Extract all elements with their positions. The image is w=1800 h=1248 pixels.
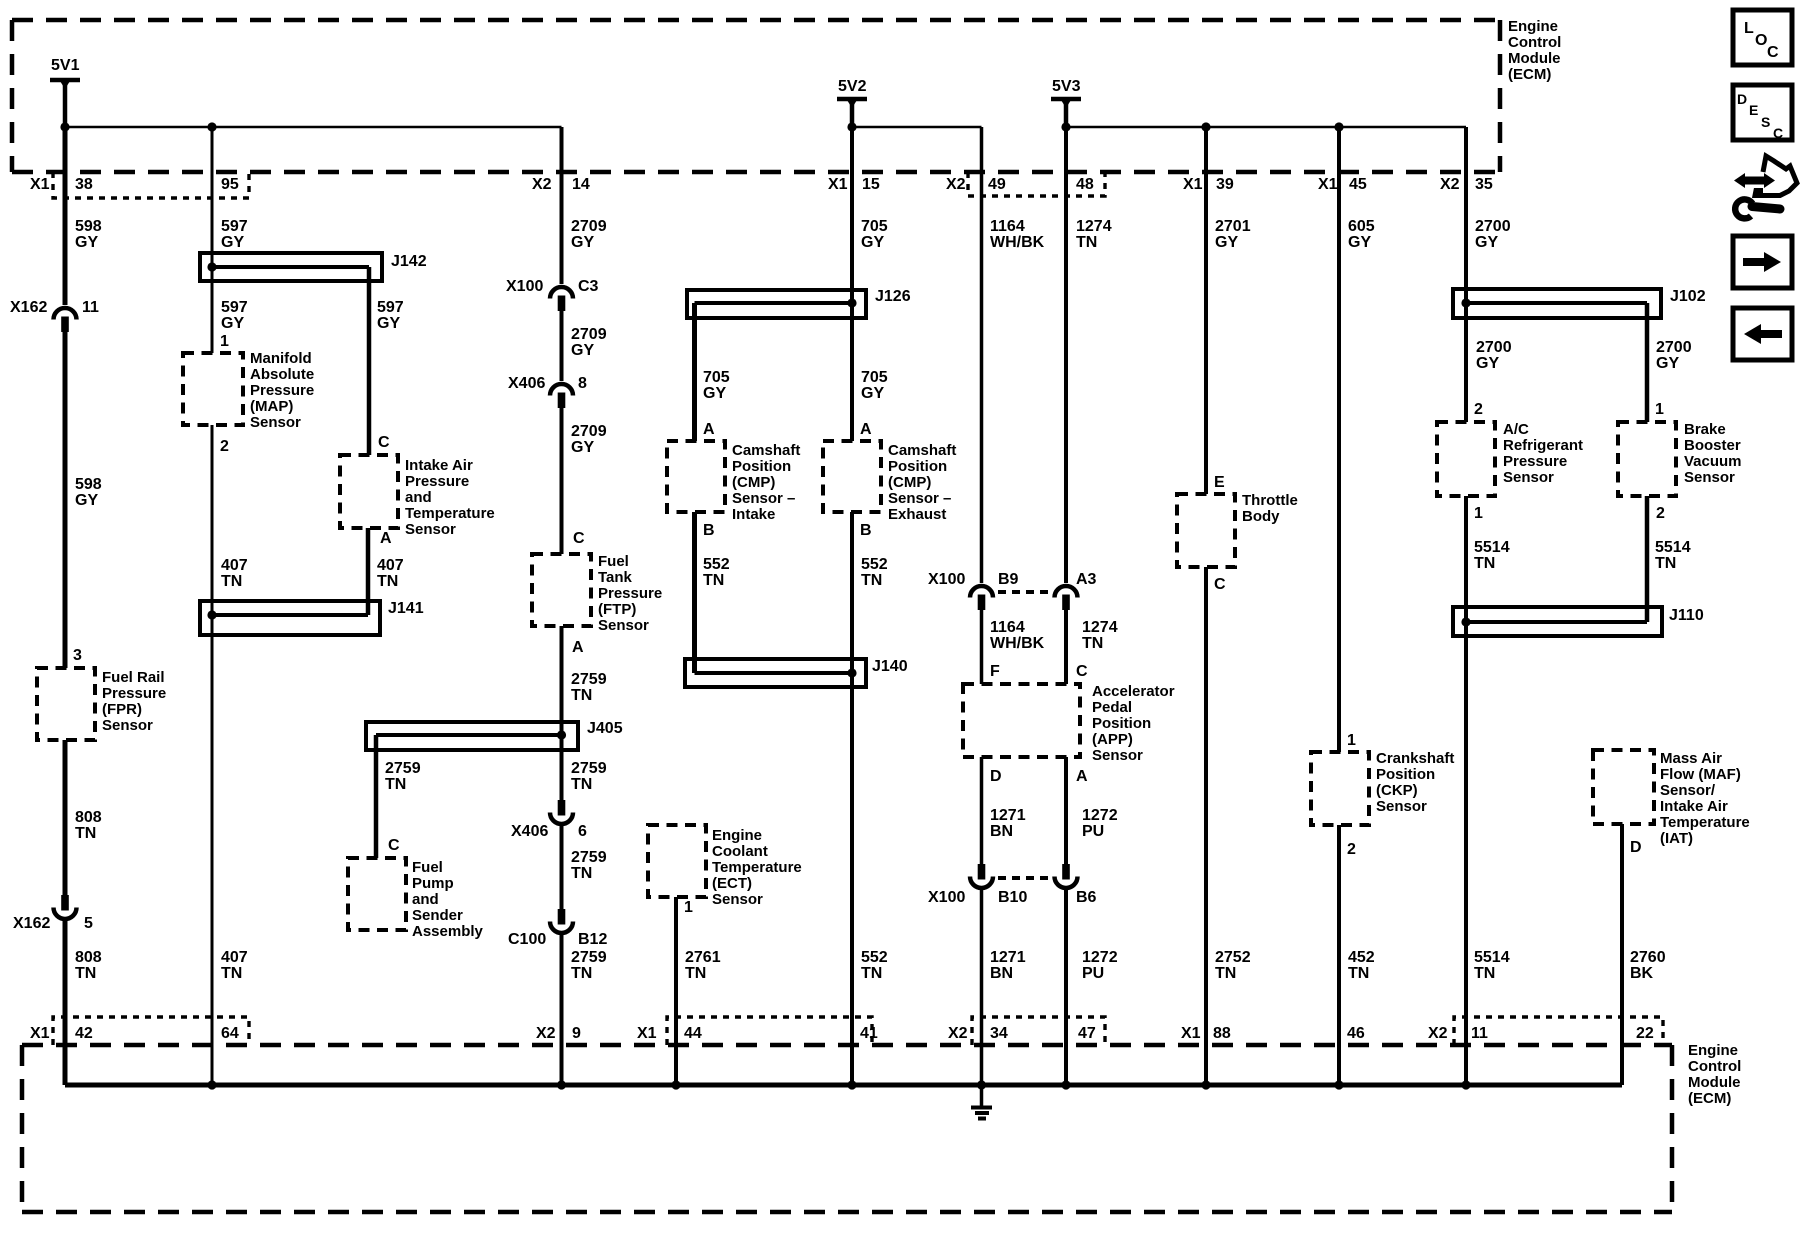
svg-text:(FPR): (FPR) bbox=[102, 701, 142, 718]
svg-text:5514: 5514 bbox=[1655, 539, 1691, 556]
svg-text:605: 605 bbox=[1348, 218, 1375, 235]
svg-text:A: A bbox=[703, 421, 715, 438]
svg-text:GY: GY bbox=[377, 315, 400, 332]
wire 1272 PU upper bbox=[1066, 757, 1118, 864]
svg-text:J126: J126 bbox=[875, 288, 911, 305]
svg-text:Sensor: Sensor bbox=[712, 891, 763, 908]
svg-text:2700: 2700 bbox=[1476, 339, 1512, 356]
svg-text:597: 597 bbox=[221, 218, 248, 235]
svg-text:(APP): (APP) bbox=[1092, 731, 1133, 748]
wire 552 TN right bbox=[852, 512, 888, 1085]
svg-text:(MAP): (MAP) bbox=[250, 398, 293, 415]
svg-text:Pressure: Pressure bbox=[250, 382, 314, 399]
connector X100 pin B10 bbox=[928, 864, 1027, 906]
ECM bottom module boundary (dashed) bbox=[22, 1045, 1672, 1212]
wire 2709 GY segment 2 bbox=[562, 311, 607, 381]
svg-text:1: 1 bbox=[1347, 732, 1356, 749]
svg-text:407: 407 bbox=[221, 949, 248, 966]
svg-text:8: 8 bbox=[578, 375, 587, 392]
wire 452 TN bbox=[1339, 825, 1375, 1085]
svg-text:22: 22 bbox=[1636, 1025, 1654, 1042]
pin C bbox=[388, 837, 400, 854]
wire 5V3 stem bbox=[1064, 99, 1069, 127]
svg-text:A: A bbox=[1076, 768, 1088, 785]
svg-text:GY: GY bbox=[75, 234, 98, 251]
connector mate dotted link B10-B6 bbox=[998, 876, 1050, 880]
icon DESC box bbox=[1733, 85, 1792, 141]
wire 5514 TN left bbox=[1466, 496, 1510, 1085]
wire 808 TN lower bbox=[65, 919, 102, 1085]
ECM X1 connector box pins 38 95 bbox=[53, 172, 249, 198]
svg-text:9: 9 bbox=[572, 1025, 581, 1042]
pin X1 15 bbox=[828, 176, 880, 193]
svg-text:Temperature: Temperature bbox=[405, 505, 495, 522]
svg-text:Engine: Engine bbox=[712, 827, 762, 844]
svg-text:(IAT): (IAT) bbox=[1660, 830, 1693, 847]
icon double arrow with curved arrow and wrench bbox=[1734, 156, 1797, 218]
svg-text:552: 552 bbox=[861, 949, 888, 966]
pin X1 45 bbox=[1318, 176, 1367, 193]
svg-text:A: A bbox=[860, 421, 872, 438]
svg-text:X2: X2 bbox=[1428, 1025, 1448, 1042]
svg-text:B12: B12 bbox=[578, 931, 607, 948]
svg-text:Body: Body bbox=[1242, 508, 1280, 525]
sensor Mass Air Flow (MAF) / Intake Air Temperature (IAT) bbox=[1593, 750, 1750, 847]
wire 1271 BN upper bbox=[982, 757, 1026, 864]
svg-text:Position: Position bbox=[732, 458, 791, 475]
svg-text:Pump: Pump bbox=[412, 875, 454, 892]
svg-text:5V2: 5V2 bbox=[838, 78, 867, 95]
svg-text:Sensor –: Sensor – bbox=[888, 490, 951, 507]
svg-text:49: 49 bbox=[988, 176, 1006, 193]
svg-text:5514: 5514 bbox=[1474, 539, 1510, 556]
svg-text:J140: J140 bbox=[872, 658, 908, 675]
svg-text:GY: GY bbox=[75, 492, 98, 509]
svg-text:X406: X406 bbox=[511, 823, 548, 840]
svg-text:45: 45 bbox=[1349, 176, 1367, 193]
svg-text:1271: 1271 bbox=[990, 949, 1026, 966]
label Engine Control Module (ECM) bottom bbox=[1688, 1042, 1741, 1107]
wire 1164 WH/BK upper bbox=[982, 127, 1045, 583]
svg-text:TN: TN bbox=[571, 776, 592, 793]
svg-text:GY: GY bbox=[221, 315, 244, 332]
pin 47 bbox=[1078, 1025, 1096, 1042]
splice pack J110 bbox=[1453, 607, 1704, 636]
wire 2701 GY bbox=[1206, 127, 1251, 494]
svg-text:598: 598 bbox=[75, 476, 102, 493]
pin 2 bbox=[1474, 401, 1483, 418]
svg-text:11: 11 bbox=[82, 299, 99, 316]
wire 1272 PU lower bbox=[1066, 888, 1118, 1085]
svg-text:15: 15 bbox=[862, 176, 880, 193]
svg-text:Sensor/: Sensor/ bbox=[1660, 782, 1716, 799]
pin A bbox=[860, 421, 872, 438]
svg-text:TN: TN bbox=[1215, 965, 1236, 982]
svg-text:TN: TN bbox=[861, 572, 882, 589]
pin X1 44 bbox=[637, 1025, 702, 1042]
pin X1 42 bbox=[30, 1025, 93, 1042]
svg-text:GY: GY bbox=[1475, 234, 1498, 251]
svg-text:X1: X1 bbox=[30, 1025, 50, 1042]
svg-text:TN: TN bbox=[377, 573, 398, 590]
svg-text:Tank: Tank bbox=[598, 569, 633, 586]
svg-text:2: 2 bbox=[220, 438, 229, 455]
ECM X2 connector box pins 11 22 bbox=[1454, 1017, 1663, 1045]
svg-text:Coolant: Coolant bbox=[712, 843, 768, 860]
sensor Intake Air Pressure and Temperature bbox=[340, 455, 495, 538]
svg-text:X2: X2 bbox=[1440, 176, 1460, 193]
wire 2759 TN branch bbox=[376, 735, 421, 858]
svg-text:597: 597 bbox=[377, 299, 404, 316]
pin D bbox=[1630, 839, 1642, 856]
pin X1 88 bbox=[1181, 1025, 1231, 1042]
svg-text:X100: X100 bbox=[928, 889, 965, 906]
svg-text:Module: Module bbox=[1688, 1074, 1741, 1091]
svg-text:2700: 2700 bbox=[1656, 339, 1692, 356]
svg-text:1: 1 bbox=[220, 333, 229, 350]
svg-text:1: 1 bbox=[1655, 401, 1664, 418]
svg-text:Pressure: Pressure bbox=[1503, 453, 1567, 470]
svg-text:Sensor: Sensor bbox=[102, 717, 153, 734]
svg-text:6: 6 bbox=[578, 823, 587, 840]
svg-text:B6: B6 bbox=[1076, 889, 1097, 906]
pin 2 bbox=[1347, 841, 1356, 858]
svg-text:(ECM): (ECM) bbox=[1688, 1090, 1731, 1107]
pin 1 bbox=[1347, 732, 1356, 749]
svg-text:2709: 2709 bbox=[571, 326, 607, 343]
svg-text:J110: J110 bbox=[1669, 607, 1704, 624]
pin X2 35 bbox=[1440, 176, 1493, 193]
svg-text:Fuel: Fuel bbox=[598, 553, 629, 570]
svg-text:Sender: Sender bbox=[412, 907, 463, 924]
svg-text:GY: GY bbox=[221, 234, 244, 251]
sensor Manifold Absolute Pressure (MAP) bbox=[183, 350, 314, 431]
wire 2759 TN segment 3 bbox=[562, 933, 607, 1085]
wire 605 GY bbox=[1339, 127, 1375, 752]
svg-text:Position: Position bbox=[1376, 766, 1435, 783]
svg-text:48: 48 bbox=[1076, 176, 1094, 193]
sensor Crankshaft Position (CKP) bbox=[1311, 750, 1454, 825]
svg-text:X2: X2 bbox=[532, 176, 552, 193]
wire 5V2 stem bbox=[850, 99, 855, 127]
svg-text:X2: X2 bbox=[948, 1025, 968, 1042]
icon left arrow box bbox=[1733, 308, 1792, 360]
wire 5V1 bus bbox=[60, 122, 561, 131]
svg-text:42: 42 bbox=[75, 1025, 93, 1042]
wire 597 GY branch bbox=[369, 267, 404, 455]
pin 1 bbox=[220, 333, 229, 350]
svg-text:Sensor: Sensor bbox=[1684, 469, 1735, 486]
wire 2760 BK bbox=[1622, 824, 1666, 1085]
ECM X2 connector box pins 34 47 bbox=[972, 1017, 1105, 1045]
wire 598 GY upper bbox=[65, 127, 102, 305]
wire 1164 WH/BK lower bbox=[982, 610, 1045, 684]
component Fuel Pump and Sender Assembly bbox=[348, 858, 484, 940]
svg-text:TN: TN bbox=[221, 965, 242, 982]
svg-text:Pressure: Pressure bbox=[598, 585, 662, 602]
svg-text:Intake Air: Intake Air bbox=[1660, 798, 1728, 815]
svg-text:Control: Control bbox=[1688, 1058, 1741, 1075]
svg-text:C: C bbox=[388, 837, 400, 854]
svg-text:Flow (MAF): Flow (MAF) bbox=[1660, 766, 1741, 783]
wire 407 TN left bbox=[212, 425, 248, 1085]
svg-text:X1: X1 bbox=[30, 176, 50, 193]
svg-text:Control: Control bbox=[1508, 34, 1561, 51]
svg-text:2: 2 bbox=[1656, 505, 1665, 522]
svg-text:BN: BN bbox=[990, 965, 1013, 982]
wire 5V1 stem bbox=[63, 80, 68, 127]
svg-text:X100: X100 bbox=[506, 278, 543, 295]
svg-text:95: 95 bbox=[221, 176, 239, 193]
component Throttle Body bbox=[1177, 492, 1298, 567]
svg-text:Pedal: Pedal bbox=[1092, 699, 1132, 716]
svg-text:WH/BK: WH/BK bbox=[990, 234, 1045, 251]
svg-text:1271: 1271 bbox=[990, 807, 1026, 824]
connector C100 pin B12 bbox=[508, 909, 607, 948]
svg-text:E: E bbox=[1214, 474, 1225, 491]
pin 3 bbox=[73, 647, 82, 664]
svg-text:GY: GY bbox=[1656, 355, 1679, 372]
svg-text:TN: TN bbox=[571, 865, 592, 882]
svg-text:2759: 2759 bbox=[571, 760, 607, 777]
svg-text:TN: TN bbox=[685, 965, 706, 982]
sensor Camshaft Position (CMP) Intake bbox=[667, 441, 800, 523]
splice pack J405 bbox=[366, 720, 623, 750]
wire 1274 TN lower bbox=[1066, 610, 1118, 684]
svg-text:Sensor: Sensor bbox=[1376, 798, 1427, 815]
svg-text:X100: X100 bbox=[928, 571, 965, 588]
connector pin B6 bbox=[1055, 864, 1097, 906]
svg-text:TN: TN bbox=[571, 965, 592, 982]
svg-text:PU: PU bbox=[1082, 823, 1104, 840]
svg-text:GY: GY bbox=[571, 439, 594, 456]
pin C bbox=[378, 434, 390, 451]
ECM X1 connector box pins 42 64 bbox=[53, 1017, 249, 1045]
sensor Accelerator Pedal Position (APP) bbox=[963, 683, 1175, 764]
svg-text:Absolute: Absolute bbox=[250, 366, 314, 383]
wire 1274 TN upper bbox=[1066, 127, 1112, 583]
connector X406 pin 8 bbox=[508, 375, 587, 408]
svg-text:B10: B10 bbox=[998, 889, 1027, 906]
svg-text:2760: 2760 bbox=[1630, 949, 1666, 966]
svg-text:(CMP): (CMP) bbox=[732, 474, 775, 491]
pin X2 34 bbox=[948, 1025, 1008, 1042]
svg-text:C: C bbox=[1767, 44, 1779, 61]
icon LOC box bbox=[1733, 10, 1792, 65]
pin A bbox=[572, 639, 584, 656]
svg-text:2709: 2709 bbox=[571, 218, 607, 235]
svg-text:Booster: Booster bbox=[1684, 437, 1741, 454]
svg-text:Throttle: Throttle bbox=[1242, 492, 1298, 509]
svg-text:J141: J141 bbox=[388, 600, 424, 617]
pin C bbox=[1214, 576, 1226, 593]
svg-text:BN: BN bbox=[990, 823, 1013, 840]
pin C bbox=[573, 530, 585, 547]
svg-text:A: A bbox=[572, 639, 584, 656]
wire 1271 BN lower bbox=[982, 888, 1026, 1085]
svg-text:11: 11 bbox=[1471, 1025, 1488, 1042]
svg-text:2759: 2759 bbox=[571, 849, 607, 866]
svg-text:705: 705 bbox=[861, 218, 888, 235]
svg-text:TN: TN bbox=[1474, 555, 1495, 572]
svg-text:Module: Module bbox=[1508, 50, 1561, 67]
svg-text:TN: TN bbox=[1655, 555, 1676, 572]
svg-text:(ECT): (ECT) bbox=[712, 875, 752, 892]
svg-text:2759: 2759 bbox=[571, 949, 607, 966]
svg-text:Engine: Engine bbox=[1688, 1042, 1738, 1059]
pin X1 39 bbox=[1183, 176, 1234, 193]
splice pack J141 bbox=[200, 600, 424, 635]
pin X2 9 bbox=[536, 1025, 581, 1042]
wire 598 GY lower bbox=[65, 332, 102, 668]
svg-text:Sensor: Sensor bbox=[1503, 469, 1554, 486]
svg-text:1272: 1272 bbox=[1082, 949, 1118, 966]
svg-text:Intake: Intake bbox=[732, 506, 775, 523]
svg-text:X162: X162 bbox=[13, 915, 50, 932]
svg-text:41: 41 bbox=[860, 1025, 878, 1042]
svg-text:Camshaft: Camshaft bbox=[888, 442, 956, 459]
svg-text:C3: C3 bbox=[578, 278, 599, 295]
svg-text:A3: A3 bbox=[1076, 571, 1097, 588]
svg-text:GY: GY bbox=[861, 385, 884, 402]
svg-text:GY: GY bbox=[1476, 355, 1499, 372]
ground bbox=[971, 1085, 992, 1119]
svg-text:GY: GY bbox=[571, 234, 594, 251]
svg-text:598: 598 bbox=[75, 218, 102, 235]
svg-text:Temperature: Temperature bbox=[712, 859, 802, 876]
pin 1 bbox=[1474, 505, 1483, 522]
svg-text:(CKP): (CKP) bbox=[1376, 782, 1418, 799]
svg-text:705: 705 bbox=[861, 369, 888, 386]
svg-text:C: C bbox=[573, 530, 585, 547]
wire 2700 GY main bbox=[1466, 127, 1512, 422]
svg-text:TN: TN bbox=[75, 965, 96, 982]
svg-text:B: B bbox=[703, 522, 715, 539]
pin E bbox=[1214, 474, 1225, 491]
wire 5V3 bus bbox=[1061, 122, 1466, 131]
svg-text:D: D bbox=[990, 768, 1002, 785]
svg-text:39: 39 bbox=[1216, 176, 1234, 193]
pin X2 49 bbox=[946, 176, 1006, 193]
svg-text:5514: 5514 bbox=[1474, 949, 1510, 966]
svg-text:2752: 2752 bbox=[1215, 949, 1251, 966]
pin F bbox=[990, 663, 1000, 680]
svg-text:2700: 2700 bbox=[1475, 218, 1511, 235]
svg-text:X1: X1 bbox=[1183, 176, 1203, 193]
svg-text:J102: J102 bbox=[1670, 288, 1706, 305]
ECM X1 connector box pins 44 41 bbox=[667, 1017, 872, 1045]
svg-text:88: 88 bbox=[1213, 1025, 1231, 1042]
pin 95 bbox=[221, 176, 239, 193]
svg-text:X2: X2 bbox=[536, 1025, 556, 1042]
ECM top module boundary (dashed) bbox=[12, 20, 1500, 172]
svg-text:X406: X406 bbox=[508, 375, 545, 392]
svg-text:5V1: 5V1 bbox=[51, 57, 80, 74]
svg-text:WH/BK: WH/BK bbox=[990, 635, 1045, 652]
svg-text:1164: 1164 bbox=[990, 218, 1025, 235]
svg-text:1272: 1272 bbox=[1082, 807, 1118, 824]
svg-text:X2: X2 bbox=[946, 176, 966, 193]
svg-text:Refrigerant: Refrigerant bbox=[1503, 437, 1583, 454]
label Engine Control Module (ECM) top bbox=[1508, 18, 1561, 83]
svg-text:Intake Air: Intake Air bbox=[405, 457, 473, 474]
svg-text:1274: 1274 bbox=[1082, 619, 1118, 636]
pin 48 bbox=[1076, 176, 1094, 193]
svg-text:J142: J142 bbox=[391, 253, 427, 270]
svg-text:TN: TN bbox=[1082, 635, 1103, 652]
svg-text:2709: 2709 bbox=[571, 423, 607, 440]
svg-text:1274: 1274 bbox=[1076, 218, 1112, 235]
connector mate dotted link B9-A3 bbox=[998, 590, 1050, 594]
svg-text:Sensor: Sensor bbox=[598, 617, 649, 634]
svg-text:Accelerator: Accelerator bbox=[1092, 683, 1175, 700]
svg-text:TN: TN bbox=[1474, 965, 1495, 982]
svg-text:Position: Position bbox=[1092, 715, 1151, 732]
svg-text:Exhaust: Exhaust bbox=[888, 506, 946, 523]
icon right arrow box bbox=[1733, 236, 1792, 288]
svg-text:Brake: Brake bbox=[1684, 421, 1726, 438]
svg-text:47: 47 bbox=[1078, 1025, 1096, 1042]
svg-text:5: 5 bbox=[84, 915, 93, 932]
svg-text:2701: 2701 bbox=[1215, 218, 1251, 235]
wire 597 GY upper bbox=[212, 127, 248, 353]
pin 2 bbox=[1656, 505, 1665, 522]
svg-text:F: F bbox=[990, 663, 1000, 680]
svg-text:Pressure: Pressure bbox=[102, 685, 166, 702]
svg-text:C: C bbox=[1773, 125, 1783, 141]
wire 705 GY branch bbox=[695, 303, 730, 441]
sensor Camshaft Position (CMP) Exhaust bbox=[823, 441, 956, 523]
wire 705 GY main bbox=[852, 127, 888, 441]
svg-text:Sensor –: Sensor – bbox=[732, 490, 795, 507]
svg-text:808: 808 bbox=[75, 949, 102, 966]
svg-text:TN: TN bbox=[1348, 965, 1369, 982]
svg-text:and: and bbox=[412, 891, 439, 908]
svg-text:Mass Air: Mass Air bbox=[1660, 750, 1722, 767]
svg-text:O: O bbox=[1755, 32, 1767, 49]
svg-text:2759: 2759 bbox=[571, 671, 607, 688]
svg-text:C: C bbox=[1076, 663, 1088, 680]
wire 2709 GY segment 3 bbox=[562, 408, 607, 554]
pin 1 bbox=[1655, 401, 1664, 418]
svg-text:(FTP): (FTP) bbox=[598, 601, 636, 618]
wire 808 TN upper bbox=[65, 740, 102, 895]
wire 5V2 bus bbox=[847, 122, 981, 131]
svg-text:A: A bbox=[380, 530, 392, 547]
sensor Brake Booster Vacuum bbox=[1618, 421, 1742, 496]
svg-text:X1: X1 bbox=[637, 1025, 657, 1042]
svg-text:(CMP): (CMP) bbox=[888, 474, 931, 491]
svg-text:46: 46 bbox=[1347, 1025, 1365, 1042]
pin X2 14 bbox=[532, 176, 590, 193]
svg-text:552: 552 bbox=[703, 556, 730, 573]
svg-text:GY: GY bbox=[861, 234, 884, 251]
svg-text:Vacuum: Vacuum bbox=[1684, 453, 1742, 470]
svg-text:C: C bbox=[378, 434, 390, 451]
svg-text:GY: GY bbox=[571, 342, 594, 359]
pin C bbox=[1076, 663, 1088, 680]
svg-text:808: 808 bbox=[75, 809, 102, 826]
ground bus wire bbox=[65, 1080, 1622, 1089]
sensor Fuel Tank Pressure (FTP) bbox=[532, 553, 662, 634]
svg-text:Fuel Rail: Fuel Rail bbox=[102, 669, 165, 686]
svg-text:Camshaft: Camshaft bbox=[732, 442, 800, 459]
svg-text:BK: BK bbox=[1630, 965, 1654, 982]
svg-text:TN: TN bbox=[1076, 234, 1097, 251]
svg-text:C100: C100 bbox=[508, 931, 546, 948]
svg-text:D: D bbox=[1737, 91, 1747, 107]
svg-text:1: 1 bbox=[1474, 505, 1483, 522]
